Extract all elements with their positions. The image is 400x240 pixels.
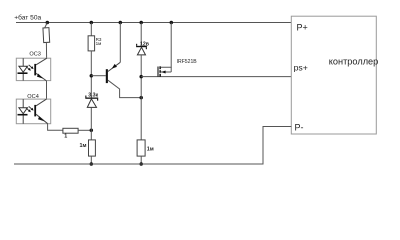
OC4 emission arrow 2 [29, 106, 34, 110]
wire gate/source line to controller ps+ [141, 76, 291, 78]
resistor R7 vertical [137, 140, 145, 156]
svg-text:контроллер: контроллер [329, 56, 378, 66]
OC3 LED cathode bar [18, 72, 28, 74]
wire base lead [91, 75, 106, 77]
wire zener 12в down through taps [140, 55, 142, 140]
wire lead from rail to top-left resistor [45, 23, 48, 28]
OC3 emission arrow 1 [26, 67, 31, 71]
node junction base at 91,75.7 [90, 74, 94, 78]
OC3 emitter diagonal with arrow [36, 73, 46, 80]
OC4 collector diagonal [36, 99, 46, 106]
OC4 LED bottom lead [22, 116, 24, 124]
optocoupler OC3 box [16, 58, 50, 80]
svg-text:+бат 50а: +бат 50а [14, 14, 41, 22]
OC4 LED triangle [19, 108, 28, 114]
node junction at 141,97.6 [139, 96, 143, 100]
OC4 LED cathode bar [18, 114, 28, 116]
svg-text:ps+: ps+ [294, 62, 308, 72]
controller box [291, 16, 376, 134]
wire R3 to base node [90, 51, 92, 99]
resistor R6 vertical [89, 140, 96, 156]
mosfet Q2 drain lead [161, 23, 171, 68]
OC3 LED triangle [19, 66, 28, 72]
wire node to R6 [90, 130, 92, 140]
node junction at 91,130 [90, 129, 94, 133]
OC3 phototransistor bar [34, 64, 36, 76]
zener diode VD2 12в [136, 44, 147, 55]
node junction bottom rail at 91 [90, 162, 94, 166]
wire P- from controller to bottom rail [14, 127, 291, 165]
zener diode VD1 3.3к [85, 96, 98, 108]
svg-text:1: 1 [64, 134, 67, 140]
wire rail to zener 12в [140, 23, 142, 46]
svg-text:P-: P- [295, 123, 304, 133]
OC4 emission arrow 1 [26, 108, 31, 112]
svg-text:IRF521B: IRF521B [177, 59, 198, 65]
wire OC4 emitter down and right to R5 [48, 124, 63, 131]
OC4 phototransistor bar [34, 105, 36, 117]
resistor R (top-left, unlabeled) [43, 28, 50, 43]
mosfet Q2 channel segment source [159, 74, 161, 77]
Q1 collector path [108, 80, 141, 97]
wire rail to R3 [90, 23, 92, 36]
wire R7 to bottom rail [140, 156, 142, 164]
wire OC3 emitter to OC4 collector [46, 81, 48, 100]
node junction on rail at x=47 [46, 21, 50, 25]
svg-text:OC3: OC3 [29, 51, 41, 57]
optocoupler OC4 box [16, 99, 50, 124]
OC3 LED top lead [22, 58, 24, 66]
wire zener to node 130 [90, 107, 92, 130]
wire R6 to bottom rail [90, 156, 92, 164]
node junction on rail at x=141 [139, 21, 143, 25]
resistor R3 [88, 36, 95, 51]
mosfet Q2 gate bar [157, 67, 159, 77]
node junction on rail at x=171 [170, 21, 174, 25]
wire R5 to node [78, 129, 91, 131]
wire top supply rail [16, 22, 291, 24]
svg-text:1м: 1м [147, 147, 154, 153]
OC4 emitter diagonal with arrow [36, 114, 48, 123]
node junction gate tap at 141,76.6 [139, 75, 143, 79]
mosfet Q2 channel segment drain [159, 66, 161, 69]
transistor Q1 PNP base bar [106, 69, 108, 83]
svg-text:1м: 1м [80, 143, 87, 149]
mosfet Q2 body lead with arrow [161, 67, 171, 73]
OC3 LED bottom lead [22, 74, 24, 81]
node junction on rail at x=91 [90, 21, 94, 25]
OC3 emission arrow 2 [29, 65, 34, 69]
svg-text:P+: P+ [297, 23, 308, 33]
svg-text:1м: 1м [96, 41, 102, 46]
OC4 LED top lead [22, 99, 24, 108]
node junction bottom rail at 141 [139, 162, 143, 166]
resistor R5 horizontal [63, 128, 78, 133]
mosfet Q2 channel segment body [159, 70, 161, 73]
OC3 collector diagonal [36, 58, 47, 65]
wire resistor to OC3 [45, 42, 47, 58]
node junction on rail at x=120 [119, 21, 123, 25]
Q1 emitter diagonal with arrow to rail [108, 23, 120, 72]
